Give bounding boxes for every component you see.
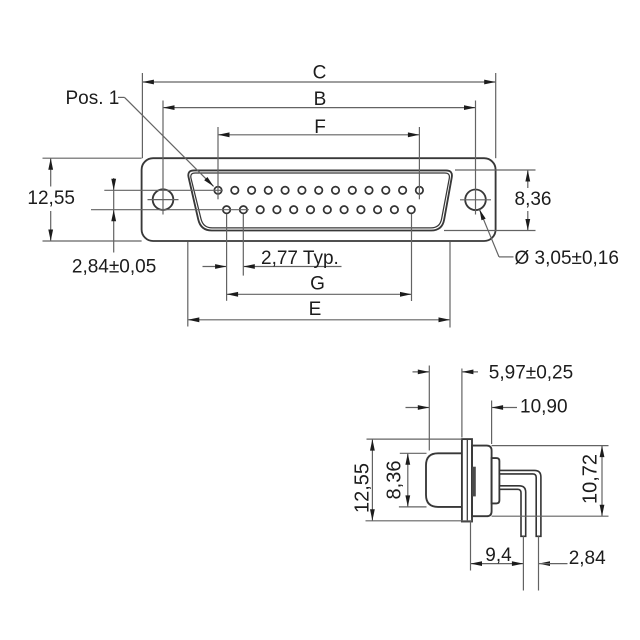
- svg-text:9,4: 9,4: [485, 545, 512, 566]
- svg-text:5,97±0,25: 5,97±0,25: [489, 362, 573, 383]
- svg-text:8,36: 8,36: [515, 189, 552, 210]
- svg-text:8,36: 8,36: [383, 461, 405, 500]
- svg-text:12,55: 12,55: [27, 188, 75, 209]
- svg-text:2,84: 2,84: [569, 548, 606, 569]
- svg-text:12,55: 12,55: [352, 463, 374, 513]
- svg-text:C: C: [313, 62, 327, 83]
- svg-text:G: G: [310, 274, 325, 295]
- svg-text:E: E: [309, 299, 322, 320]
- svg-text:10,90: 10,90: [520, 397, 568, 418]
- svg-text:Ø 3,05±0,16: Ø 3,05±0,16: [515, 248, 619, 269]
- svg-text:2,77 Typ.: 2,77 Typ.: [261, 248, 339, 269]
- svg-text:2,84±0,05: 2,84±0,05: [72, 257, 156, 278]
- svg-text:Pos. 1: Pos. 1: [66, 88, 120, 109]
- svg-text:B: B: [314, 89, 327, 110]
- svg-text:10,72: 10,72: [580, 454, 602, 504]
- svg-text:F: F: [314, 117, 326, 138]
